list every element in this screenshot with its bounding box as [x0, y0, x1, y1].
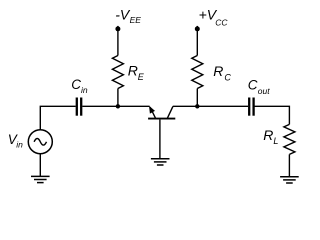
- junction dot: RE / emitter rail: [116, 104, 120, 108]
- wire: RC bottom to collector rail: [196, 89, 198, 107]
- svg-text:in: in: [81, 85, 88, 95]
- label Vin: [8, 132, 23, 150]
- ground (transistor base): [151, 159, 170, 165]
- transistor Q1 emitter lead: [150, 107, 156, 119]
- wire: RE bottom to left rail: [117, 89, 119, 107]
- svg-text:L: L: [273, 136, 278, 146]
- svg-text:CC: CC: [215, 17, 228, 27]
- resistor RL: [284, 124, 295, 154]
- resistor RC: [192, 56, 203, 89]
- junction dot: RC / collector rail: [195, 104, 199, 108]
- svg-text:R: R: [213, 63, 223, 79]
- capacitor Cin right plate: [80, 98, 82, 116]
- label Cout: [248, 78, 270, 96]
- wire: Vin bottom to ground: [39, 154, 41, 177]
- capacitor Cin left plate: [76, 98, 78, 116]
- source Vin circle: [28, 130, 52, 154]
- svg-text:E: E: [138, 72, 145, 82]
- wire: Vin top to Cin (corner): [40, 106, 75, 129]
- wire: Cin to emitter (through junction): [82, 105, 149, 107]
- supply label -VEE: [115, 7, 141, 26]
- supply terminal dot +VCC: [195, 26, 200, 31]
- resistor RE: [112, 56, 123, 89]
- supply terminal dot -VEE: [115, 26, 120, 31]
- svg-text:in: in: [16, 140, 23, 150]
- supply label +VCC: [199, 7, 229, 28]
- transistor Q1 emitter arrowhead: [149, 106, 155, 114]
- source Vin sine wave: [34, 139, 46, 146]
- transistor Q1 base lead wire: [159, 120, 161, 159]
- label RL: [263, 127, 278, 146]
- capacitor Cout right plate: [252, 98, 254, 116]
- svg-text:C: C: [224, 72, 231, 82]
- ground (RL): [280, 177, 299, 183]
- wire: -VEE terminal to RE top: [117, 29, 119, 56]
- ground (Vin): [31, 176, 50, 182]
- wire: collector to Cout (through junction): [173, 105, 248, 107]
- transistor Q1 collector lead: [167, 106, 173, 118]
- svg-text:EE: EE: [130, 15, 142, 25]
- svg-text:C: C: [248, 78, 258, 93]
- transistor Q1 base bar: [148, 118, 175, 120]
- svg-text:R: R: [128, 63, 138, 79]
- wire: Cout to RL (corner): [254, 106, 289, 124]
- svg-text:out: out: [258, 86, 270, 96]
- wire: RL bottom to ground: [288, 154, 290, 176]
- label Cin: [71, 77, 88, 95]
- label RE: [128, 63, 145, 82]
- svg-text:R: R: [263, 127, 273, 143]
- wire: +VCC terminal to RC top: [196, 29, 198, 56]
- label RC: [213, 63, 231, 82]
- capacitor Cout left plate: [248, 98, 250, 116]
- svg-text:-V: -V: [115, 7, 131, 23]
- svg-text:C: C: [71, 77, 81, 92]
